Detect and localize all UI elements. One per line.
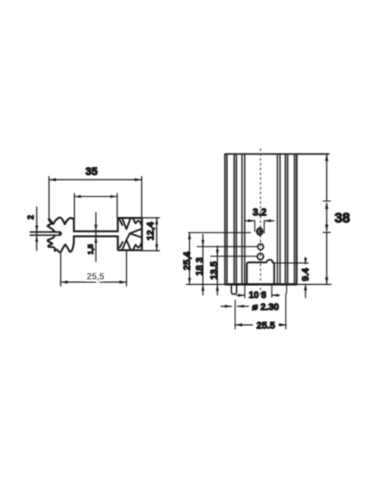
unnamed inner dim line [74,196,117,198]
svg-text:9.4: 9.4 [301,267,312,281]
ext line top hole to dim 25.4 [189,232,251,234]
dim 13.5 [216,246,218,295]
left star fin cluster (upper outline) [47,218,73,232]
dim 10.8 [237,294,245,296]
svg-text:2: 2 [27,215,36,220]
svg-text:25,4: 25,4 [182,251,193,270]
dim 25.5 ext lines [234,300,236,329]
dim 12.4 line [156,218,158,251]
dim 18.3 [202,235,204,296]
dim 12.4 ext lines [142,217,160,219]
svg-text:25.5: 25.5 [257,320,276,331]
svg-text:13.5: 13.5 [209,261,220,280]
fin hub dot [59,232,62,235]
body fin lines [225,154,297,284]
left star fin cluster (lower outline) [47,235,73,252]
body top edge (with ext to dim 38) [226,153,329,155]
svg-text:38: 38 [335,210,351,226]
center line (dash-dot) [260,149,262,297]
dim 25.4 [189,233,191,285]
dim phi 2.30 [221,305,231,307]
svg-text:12,4: 12,4 [146,221,157,240]
svg-text:35: 35 [85,166,97,178]
upper circle hole [258,244,264,250]
dim 25.5 [235,324,252,326]
dim 38 [326,154,328,201]
dim 25,5 line [61,281,127,283]
slot outline [247,260,274,285]
ext line lower circle to 13.5 [211,255,257,257]
dim 25,5 ext lines [60,253,62,286]
svg-text:1,5: 1,5 [86,244,95,254]
dim 2 (fin tip thickness) [36,207,38,251]
svg-text:18 3: 18 3 [195,257,206,276]
dim 35 line [49,179,142,181]
top hole (3.2 tapped) [257,229,263,235]
dim 1.5 (web thickness) [95,213,97,262]
slot line ext to 9.4 [274,262,308,264]
lower circle hole [257,253,263,259]
ext line left of 35 [48,177,50,219]
web between clusters [74,230,118,232]
right fin cluster rectangle [118,218,142,250]
body bottom edge (with ext both sides) [187,283,332,285]
svg-text:10 8: 10 8 [249,290,267,300]
dim 10.8 ext lines [244,284,246,298]
ext line upper circle to 18.3 [197,246,257,248]
svg-text:3.2: 3.2 [253,207,267,218]
svg-text:25,5: 25,5 [87,271,105,281]
svg-text:ø 2.30: ø 2.30 [252,302,279,313]
solder pin [231,284,236,294]
ext lines of inner dim [73,194,75,219]
left fin extension lines (2mm tip) [30,231,60,233]
ext line right of 35 [141,177,143,218]
dim 9.4 [305,258,307,265]
right cluster slits [120,218,142,250]
dim 35 arrows [49,178,142,181]
